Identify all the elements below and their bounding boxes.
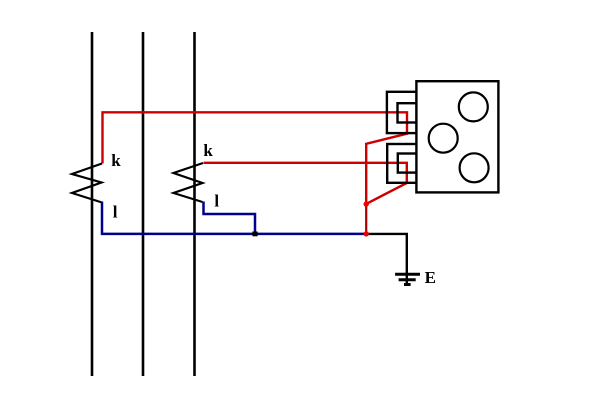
plug hole 2 [429, 124, 458, 153]
svg-text:k: k [111, 151, 121, 170]
wire red A (CT1 k to top connector pin) [103, 112, 408, 204]
svg-text:l: l [214, 192, 219, 211]
resistor CT2 zigzag [174, 163, 204, 202]
plug body U1 [416, 81, 498, 192]
connector P1 inner [398, 103, 417, 122]
wire blue CT1 l to common [102, 202, 366, 234]
svg-text:k: k [203, 141, 213, 160]
plug hole 3 [460, 153, 489, 182]
bus line L1 [91, 32, 94, 376]
connector P2 outer [387, 144, 417, 183]
wire red B (CT2 k to bottom connector pin) [204, 163, 407, 204]
bus line L3 [193, 32, 196, 376]
bus line L2 [142, 32, 145, 376]
svg-text:l: l [113, 202, 118, 221]
wire red junction drop [365, 204, 367, 234]
plug hole 1 [459, 92, 488, 121]
wire blue CT2 l to common [204, 202, 256, 234]
svg-text:E: E [425, 268, 436, 287]
connector P2 inner [398, 154, 417, 173]
connector P1 outer [387, 92, 417, 133]
resistor CT1 zigzag [72, 164, 102, 203]
ground E symbol [395, 272, 420, 285]
node red on common dot [364, 231, 369, 236]
wire to ground [366, 234, 407, 275]
node junction square (blue common) [252, 232, 257, 237]
node red junction dot [364, 201, 369, 206]
